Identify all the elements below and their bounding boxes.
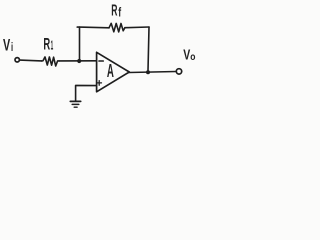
svg-text:1: 1 xyxy=(51,37,54,52)
wire (feedback riser, right) xyxy=(148,27,149,71)
label Vi xyxy=(3,37,13,55)
plus sign (non-inverting input) xyxy=(97,81,102,86)
label Vo xyxy=(183,48,195,64)
op-amp U1 (triangle) xyxy=(97,52,130,92)
wire R1 to inverting input node xyxy=(59,60,96,62)
wire op-amp output to Vo terminal xyxy=(129,72,176,73)
svg-text:A: A xyxy=(107,61,114,81)
wire Rf to output riser xyxy=(125,26,149,29)
wire (feedback riser, left) xyxy=(77,27,79,61)
resistor R1 xyxy=(42,57,60,66)
wire feedback top to Rf xyxy=(80,26,110,29)
wire input to R1 xyxy=(20,59,42,62)
label R1 xyxy=(43,36,53,54)
svg-text:f: f xyxy=(118,6,121,20)
svg-text:V: V xyxy=(3,37,10,55)
output terminal Vo (open circle) xyxy=(176,69,181,74)
svg-text:R: R xyxy=(43,36,50,54)
svg-text:i: i xyxy=(11,42,13,54)
node: output junction xyxy=(146,70,150,74)
input terminal Vi (open circle) xyxy=(15,58,19,62)
label Rf xyxy=(111,3,121,20)
node: inverting input junction xyxy=(77,59,81,63)
svg-text:o: o xyxy=(190,52,195,63)
svg-text:R: R xyxy=(111,3,117,20)
wire non-inverting input to ground xyxy=(76,85,96,101)
resistor Rf xyxy=(109,23,125,32)
ground xyxy=(70,100,80,102)
minus sign (inverting input) xyxy=(99,60,103,62)
